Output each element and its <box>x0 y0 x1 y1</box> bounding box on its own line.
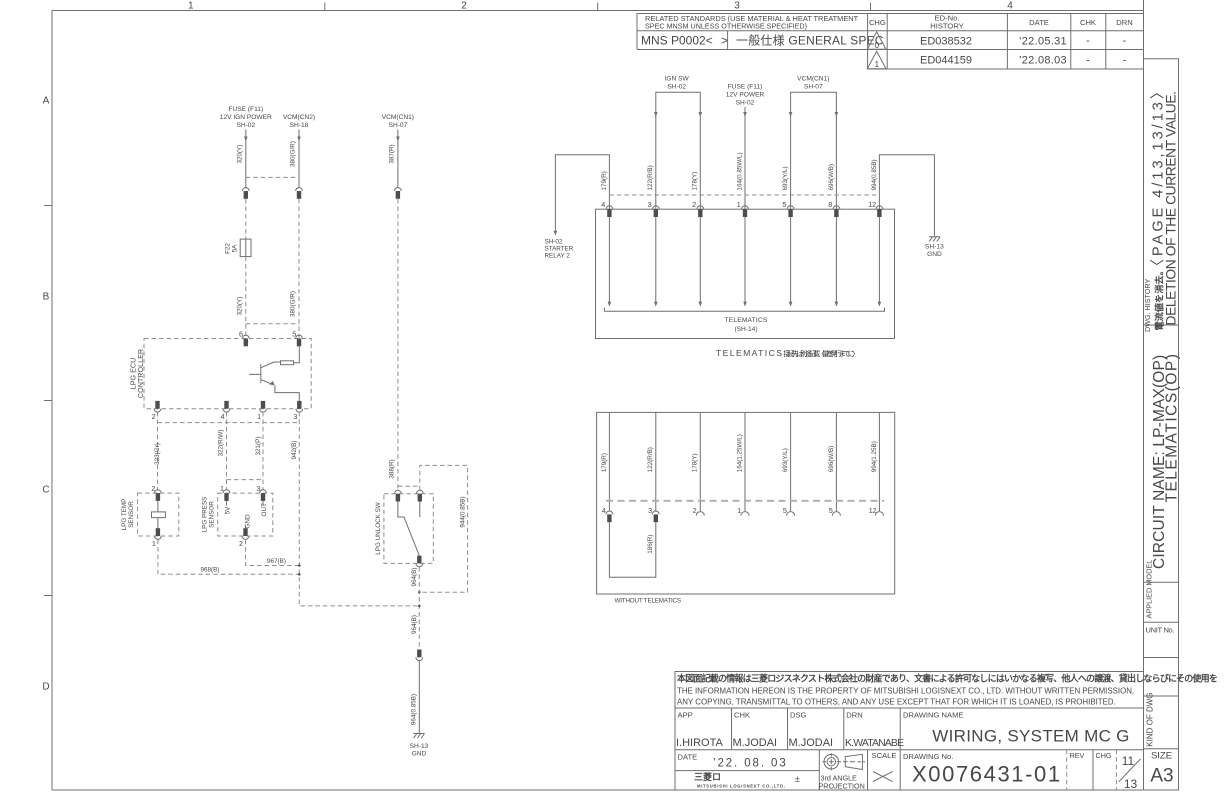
ground SH-13 <box>410 734 429 758</box>
telematics pin 8 <box>828 200 840 307</box>
svg-text:DRAWING NAME: DRAWING NAME <box>903 711 963 720</box>
switch blade <box>398 502 420 556</box>
svg-text:D: D <box>42 681 49 692</box>
svg-text:WITHOUT TELEMATICS: WITHOUT TELEMATICS <box>615 598 681 605</box>
svg-text:’22.08.03: ’22.08.03 <box>1019 55 1067 67</box>
svg-text:321(P): 321(P) <box>255 437 262 456</box>
title block grid <box>675 672 1144 791</box>
svg-text:322(R/W): 322(R/W) <box>217 430 224 457</box>
svg-text:5: 5 <box>782 200 786 209</box>
svg-text:SH-02: SH-02 <box>736 100 755 107</box>
svg-text:TELEMATICS接続先は別途記載〈量産発行までに〉: TELEMATICS接続先は別途記載〈量産発行までに〉 <box>716 348 856 358</box>
svg-text:ED038532: ED038532 <box>920 36 972 48</box>
svg-text:(SH-14): (SH-14) <box>734 326 757 333</box>
harness tie dashed above ECU <box>246 323 299 325</box>
ground SH-13 right <box>925 237 944 258</box>
svg-text:M.JODAI: M.JODAI <box>789 737 834 749</box>
harness tie dashed <box>246 176 299 178</box>
svg-text:179(R): 179(R) <box>601 453 608 472</box>
svg-text:SPEC MNSM UNLESS OTHERWISE SPE: SPEC MNSM UNLESS OTHERWISE SPECIFIED) <box>645 22 807 31</box>
svg-text:SENSOR: SENSOR <box>209 501 216 528</box>
pin 6 <box>239 330 249 347</box>
node VCM(CN2) SH-18 <box>283 114 315 129</box>
svg-text:GND: GND <box>927 251 942 258</box>
svg-text:A: A <box>43 95 50 106</box>
svg-text:ANY COPYING, TRANSMITTAL TO OT: ANY COPYING, TRANSMITTAL TO OTHERS, AND … <box>677 698 1116 707</box>
telematics pin 1 <box>737 200 749 307</box>
svg-text:8: 8 <box>828 200 832 209</box>
wire 967(B) <box>246 540 301 567</box>
svg-text:M.JODAI: M.JODAI <box>733 737 778 749</box>
svg-text:LPG PRESS: LPG PRESS <box>202 497 209 533</box>
LPG PRESS SENSOR box <box>202 493 273 536</box>
wt wire 693(Y/L) <box>782 412 791 511</box>
svg-text:964(B): 964(B) <box>411 615 418 634</box>
wt wire 994(1.25B) <box>871 412 880 511</box>
svg-text:SCALE: SCALE <box>872 751 897 760</box>
pin 1 <box>257 401 266 421</box>
svg-text:DATE: DATE <box>678 753 698 762</box>
svg-text:CHG: CHG <box>869 18 886 27</box>
svg-text:K.WATANABE: K.WATANABE <box>845 738 904 749</box>
svg-text:CHK: CHK <box>1080 18 1096 27</box>
DRAWING NAME cell <box>903 711 1130 746</box>
svg-text:±: ± <box>795 774 800 784</box>
wire 320(Y) to pin 6 <box>236 257 246 338</box>
svg-text:12V POWER: 12V POWER <box>726 92 765 99</box>
svg-text:12: 12 <box>869 506 877 515</box>
svg-text:DWG. HISTORY: DWG. HISTORY <box>1143 279 1152 332</box>
svg-text:13: 13 <box>1124 777 1138 791</box>
svg-text:X0076431-01: X0076431-01 <box>912 762 1062 787</box>
pin 4 <box>221 401 230 421</box>
telematics pin 2 <box>692 200 704 307</box>
wire 964(0.85B) <box>410 661 419 734</box>
svg-text:SH-13: SH-13 <box>925 244 944 251</box>
wt pin 5b unmated <box>829 506 841 516</box>
svg-text:1: 1 <box>257 412 261 421</box>
svg-text:2: 2 <box>693 506 697 515</box>
svg-text:MNS P0002<: MNS P0002< <box>641 34 713 48</box>
wt wire 164(1.25W/L) <box>736 412 745 511</box>
svg-text:SIZE: SIZE <box>1151 750 1172 761</box>
wire 387(R) col3 top <box>389 130 400 188</box>
svg-text:3: 3 <box>648 200 652 209</box>
svg-text:1: 1 <box>188 1 194 12</box>
pin 5 <box>292 330 302 347</box>
wt pin 1 unmated <box>737 506 749 516</box>
svg-text:LPG UNLOCK SW: LPG UNLOCK SW <box>375 502 382 555</box>
connector 964 <box>416 650 423 661</box>
svg-text:5A: 5A <box>232 244 239 253</box>
svg-text:4: 4 <box>221 412 225 421</box>
svg-text:5: 5 <box>783 506 787 515</box>
svg-text:6: 6 <box>239 330 243 339</box>
DRN cell <box>845 711 904 750</box>
svg-text:CHG: CHG <box>1096 751 1112 760</box>
wt wire 696(W/B) <box>828 412 837 511</box>
revision table grid <box>637 14 1144 70</box>
svg-text:THE INFORMATION HEREON IS THE: THE INFORMATION HEREON IS THE PROPERTY O… <box>677 687 1134 696</box>
wire 323(Gr) <box>154 412 161 490</box>
svg-text:-: - <box>1086 54 1090 66</box>
svg-text:1: 1 <box>152 539 156 548</box>
wire 320(Y) col1 top <box>236 130 247 188</box>
wire 944(0.85B) loop <box>418 465 468 593</box>
transistor Q1 <box>249 362 299 401</box>
svg-text:SH-02: SH-02 <box>236 122 255 129</box>
svg-text:HISTORY: HISTORY <box>930 22 963 31</box>
wt wire 179(R) <box>601 412 610 511</box>
svg-text:186(R): 186(R) <box>647 535 654 554</box>
svg-text:FUSE (F11): FUSE (F11) <box>728 84 763 91</box>
unlock sw pin B <box>416 490 423 501</box>
svg-text:I.HIROTA: I.HIROTA <box>676 737 724 749</box>
wire 179(R) with SH-02 STARTER RELAY 2 <box>545 155 610 260</box>
SCALE cell <box>872 751 897 782</box>
wire 380(G/R) to pin 5 <box>290 199 299 338</box>
svg-text:OUT: OUT <box>261 503 268 516</box>
wt pin 12 unmated <box>869 506 884 516</box>
svg-text:323(Gr): 323(Gr) <box>154 443 161 465</box>
SIZE A3 <box>1150 750 1173 786</box>
telematics pin 5 <box>782 200 794 307</box>
svg-text:178(Y): 178(Y) <box>692 172 699 191</box>
svg-text:1: 1 <box>737 506 741 515</box>
APP cell <box>676 711 724 750</box>
harness tie below ECU <box>158 422 300 424</box>
harness tie press sensor <box>227 479 264 481</box>
svg-text:A3: A3 <box>1150 765 1173 786</box>
unlock sw bottom pin <box>416 556 423 567</box>
wire 942(B) <box>291 412 419 606</box>
connector col1 <box>242 188 249 199</box>
svg-text:164(0.85W/L): 164(0.85W/L) <box>736 152 743 190</box>
svg-text:DSG: DSG <box>790 711 807 720</box>
svg-text:696(W/B): 696(W/B) <box>828 164 835 191</box>
svg-text:>: > <box>721 34 728 48</box>
svg-text:964(B): 964(B) <box>411 568 418 587</box>
revision row ED044159 <box>920 54 1127 66</box>
svg-text:IGN SW: IGN SW <box>665 76 690 83</box>
svg-text:SH-13: SH-13 <box>410 743 429 750</box>
svg-text:-: - <box>1123 54 1127 66</box>
press sensor pin 1 5V <box>220 484 232 515</box>
revision mark triangle 1 <box>867 51 886 69</box>
svg-text:本図面記載の情報は三菱ロジスネクスト株式会社の財産であり、文: 本図面記載の情報は三菱ロジスネクスト株式会社の財産であり、文書による許可なしには… <box>677 673 1218 684</box>
svg-text:SH-02: SH-02 <box>667 84 686 91</box>
fuse F22 5A <box>225 239 252 257</box>
svg-text:一般仕様 GENERAL SPEC: 一般仕様 GENERAL SPEC <box>736 33 884 48</box>
svg-text:REV: REV <box>1070 751 1085 760</box>
svg-text:F22: F22 <box>225 243 232 254</box>
svg-text:122(R/B): 122(R/B) <box>647 447 654 472</box>
svg-text:380(G/R): 380(G/R) <box>290 291 297 317</box>
wire 322(R/W) <box>217 412 226 490</box>
svg-text:DRN: DRN <box>846 711 862 720</box>
LPG ECU CONTROLLER box <box>129 339 312 409</box>
telematics pin 4 <box>601 200 613 307</box>
connector col3 <box>395 188 402 199</box>
press sensor pin 2 GND <box>239 514 252 548</box>
svg-text:380(G/R): 380(G/R) <box>290 141 297 167</box>
svg-text:12: 12 <box>868 200 876 209</box>
wire 122(R/B) <box>647 96 657 209</box>
svg-text:DATE: DATE <box>1029 18 1049 27</box>
resistor R in ECU <box>281 347 300 365</box>
wire 178(Y) <box>692 96 702 209</box>
svg-text:C: C <box>42 485 49 496</box>
svg-text:VCM(CN2): VCM(CN2) <box>283 114 315 121</box>
svg-text:3: 3 <box>293 412 297 421</box>
node FUSE (F11) 12V POWER SH-02 <box>726 84 765 107</box>
wire 693(Y/L) <box>782 96 792 209</box>
svg-text:1: 1 <box>737 200 741 209</box>
wire 380(G/R) col2 top <box>290 130 301 188</box>
svg-text:3: 3 <box>257 484 261 493</box>
svg-text:320(Y): 320(Y) <box>236 297 243 316</box>
svg-text:4: 4 <box>601 200 605 209</box>
bracket TELEMATICS (SH-14) <box>604 308 884 334</box>
svg-text:SH-18: SH-18 <box>290 122 309 129</box>
wire 964(B) <box>411 567 421 650</box>
svg-text:APP: APP <box>678 711 693 720</box>
svg-text:5V: 5V <box>225 506 232 515</box>
svg-text:SH-07: SH-07 <box>389 122 408 129</box>
svg-text:3: 3 <box>648 506 652 515</box>
svg-text:964(0.85B): 964(0.85B) <box>410 694 417 725</box>
wire 696(W/B) <box>828 96 838 209</box>
svg-text:11: 11 <box>1122 754 1135 768</box>
svg-text:12V IGN POWER: 12V IGN POWER <box>220 114 272 121</box>
svg-text:VCM(CN1): VCM(CN1) <box>382 114 414 121</box>
svg-text:RELAY 2: RELAY 2 <box>545 253 571 260</box>
svg-text:5: 5 <box>829 506 833 515</box>
svg-text:693(Y/L): 693(Y/L) <box>782 166 789 190</box>
wire col1 to fuse <box>245 199 247 239</box>
svg-text:2: 2 <box>152 412 156 421</box>
svg-text:2: 2 <box>239 539 243 548</box>
svg-text:三菱ロ: 三菱ロ <box>694 771 721 782</box>
DSG cell <box>789 711 834 750</box>
svg-text:2: 2 <box>151 484 155 493</box>
svg-text:SH-07: SH-07 <box>804 84 823 91</box>
node VCM(CN1) SH-07 <box>791 76 837 96</box>
svg-text:-: - <box>1123 35 1127 47</box>
LPG TEMP SENSOR box <box>121 493 179 536</box>
svg-text:CHK: CHK <box>734 711 750 720</box>
revision row ED038532 <box>920 35 1127 48</box>
harness tie unlock sw <box>398 485 420 487</box>
svg-text:994(0.85B): 994(0.85B) <box>871 159 878 190</box>
wire 164(0.85W/L) <box>736 107 746 209</box>
svg-text:1: 1 <box>875 60 880 69</box>
svg-text:968(B): 968(B) <box>201 567 220 574</box>
DRAWING No. cell <box>903 752 1062 787</box>
maker logo <box>694 771 800 789</box>
svg-text:SENSOR: SENSOR <box>128 501 135 528</box>
svg-text:942(B): 942(B) <box>291 441 298 460</box>
wire 321(P) <box>255 412 263 490</box>
svg-text:-: - <box>1086 35 1090 47</box>
svg-text:’22. 08. 03: ’22. 08. 03 <box>713 758 788 770</box>
svg-text:LPG TEMP: LPG TEMP <box>121 499 128 531</box>
wire 388(R) col3 down to unlock switch <box>389 199 398 490</box>
wt pin 3 <box>648 506 659 522</box>
svg-text:693(Y/L): 693(Y/L) <box>782 448 789 472</box>
svg-text:SH-02: SH-02 <box>545 239 563 246</box>
wt wire 178(Y) <box>692 412 701 511</box>
svg-text:TELEMATICS(OP): TELEMATICS(OP) <box>1164 353 1181 503</box>
svg-text:WIRING, SYSTEM MC G: WIRING, SYSTEM MC G <box>932 727 1129 746</box>
svg-text:DRN: DRN <box>1116 18 1132 27</box>
sidebar grid <box>1144 325 1179 749</box>
connector col2 <box>296 188 303 199</box>
svg-text:0: 0 <box>875 41 880 50</box>
svg-text:MITSUBISHI LOGISNEXT CO.,LTD.: MITSUBISHI LOGISNEXT CO.,LTD. <box>697 784 786 789</box>
wt pin 2 unmated <box>693 506 705 516</box>
revision mark triangle 0 <box>867 32 886 50</box>
DATE cell <box>678 753 788 770</box>
wire 968(B) <box>158 540 301 576</box>
LPG UNLOCK SW box <box>375 494 433 564</box>
pin 2 <box>152 401 161 421</box>
sheet 11/13 <box>1119 754 1141 791</box>
WITHOUT TELEMATICS box <box>597 412 895 594</box>
svg-text:TELEMATICS: TELEMATICS <box>725 317 768 324</box>
svg-text:4: 4 <box>602 506 606 515</box>
svg-text:696(W/B): 696(W/B) <box>828 446 835 473</box>
svg-text:PROJECTION: PROJECTION <box>819 782 865 791</box>
svg-text:178(Y): 178(Y) <box>692 453 699 472</box>
svg-text:320(Y): 320(Y) <box>236 145 243 164</box>
svg-text:FUSE (F11): FUSE (F11) <box>228 106 263 113</box>
svg-text:DRAWING No.: DRAWING No. <box>903 752 953 761</box>
wt pin 4 <box>602 506 613 522</box>
svg-text:B: B <box>43 291 50 302</box>
svg-text:164(1.25W/L): 164(1.25W/L) <box>736 434 743 472</box>
svg-text:UNIT No.: UNIT No. <box>1146 625 1175 634</box>
svg-text:122(R/B): 122(R/B) <box>647 165 654 190</box>
svg-text:967(B): 967(B) <box>267 558 286 565</box>
svg-text:KIND OF DWG: KIND OF DWG <box>1146 692 1155 746</box>
harness tie telematics <box>609 194 879 196</box>
pin 3 <box>293 401 302 421</box>
svg-text:DELETION OF THE CURRENT VALUE.: DELETION OF THE CURRENT VALUE. <box>1164 91 1179 325</box>
TELEMATICS box <box>596 209 895 338</box>
svg-text:4: 4 <box>1007 1 1013 12</box>
svg-text:2: 2 <box>692 200 696 209</box>
press sensor pin 3 OUT <box>257 484 269 517</box>
svg-text:944(0.85B): 944(0.85B) <box>459 496 466 527</box>
svg-text:STARTER: STARTER <box>545 246 574 253</box>
harness tie without telematics <box>606 500 884 502</box>
wire 186(R) jumper <box>609 522 655 577</box>
svg-text:CONTROLLER: CONTROLLER <box>136 349 145 398</box>
node FUSE (F11) 12V IGN POWER SH-02 <box>220 106 272 129</box>
thermistor element <box>152 501 166 528</box>
svg-text:2: 2 <box>461 1 467 12</box>
svg-text:994(1.25B): 994(1.25B) <box>871 441 878 472</box>
svg-text:1: 1 <box>220 484 224 493</box>
svg-text:3: 3 <box>734 1 740 12</box>
svg-text:5: 5 <box>292 330 296 339</box>
wire 994(0.85B) to ground <box>871 155 935 237</box>
svg-text:’22.05.31: ’22.05.31 <box>1019 36 1067 48</box>
CHK cell <box>733 711 778 750</box>
unlock sw pin A <box>395 490 402 501</box>
temp sensor pin 1 <box>152 528 161 548</box>
svg-text:387(R): 387(R) <box>389 144 396 163</box>
svg-text:ED044159: ED044159 <box>920 55 972 67</box>
svg-text:VCM(CN1): VCM(CN1) <box>797 76 829 83</box>
temp sensor pin 2 <box>151 484 161 501</box>
node IGN SW SH-02 <box>656 76 701 96</box>
svg-text:GND: GND <box>412 751 427 758</box>
svg-text:388(R): 388(R) <box>389 459 396 478</box>
3rd angle projection symbol <box>819 753 866 790</box>
telematics pin 3 <box>648 200 660 307</box>
telematics pin 12 <box>868 200 883 307</box>
svg-text:179(R): 179(R) <box>601 171 608 190</box>
wt pin 5 unmated <box>783 506 795 516</box>
svg-text:APPLIED MODEL: APPLIED MODEL <box>1144 560 1153 619</box>
wt wire 122(R/B) <box>647 412 656 511</box>
node VCM(CN1) SH-07 <box>382 114 414 129</box>
